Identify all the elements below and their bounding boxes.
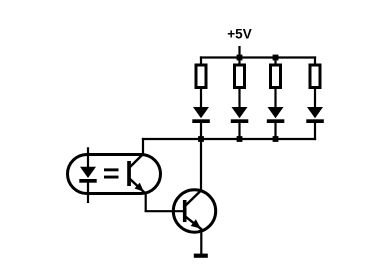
wire R2-to-D2 [238,88,240,109]
ground [194,254,208,258]
wire D2-to-bus [238,122,240,140]
optocoupler LED anode lead [87,147,89,167]
transistor Q1 base bar [183,200,187,222]
optocoupler light coupling symbol = [104,168,119,178]
resistor R4 [310,65,320,88]
optocoupler phototransistor collector [130,154,144,168]
junction dot bus-branch1 [198,136,204,142]
diode D1 [192,107,210,123]
wire Q1 collector (bus to transistor) [200,140,202,192]
wire branch4 rail-to-R4 [314,56,316,65]
wire branch2 rail-to-R2 [238,56,240,65]
diode D2 [231,107,249,123]
wire Q1 emitter-to-ground [200,229,202,255]
wire D3-to-bus [274,122,276,140]
transistor Q1 body [173,190,215,232]
resistor R2 [235,65,245,88]
optocoupler U1 package [68,155,161,194]
resistor R3 [271,65,281,88]
optocoupler phototransistor emitter [130,179,146,194]
diode D3 [267,107,285,123]
svg-text:+5V: +5V [227,26,251,41]
wire Q1 base lead [145,210,185,212]
transistor Q1 collector diagonal [185,190,202,207]
wire branch3 rail-to-R3 [274,56,276,65]
wire bottom bus [142,138,316,140]
wire bus-to-optocoupler collector [142,138,144,154]
wire R3-to-D3 [274,88,276,109]
transistor Q1 emitter diagonal [185,216,202,230]
diode D4 [306,107,324,123]
wire D1-to-bus [200,122,202,140]
optocoupler LED D5 [79,167,96,183]
resistor R1 [196,65,206,88]
wire branch1 rail-to-R1 [200,56,202,65]
wire +5V stub [238,46,240,58]
wire R4-to-D4 [314,88,316,109]
optocoupler LED cathode lead [87,182,89,203]
optocoupler phototransistor base bar [127,161,131,186]
junction dot bus-branch3 [273,136,279,142]
wire top rail [200,56,316,58]
wire D4-to-bus [314,122,316,140]
wire optocoupler emitter drop [145,193,147,212]
junction dot bus-branch2 [237,136,243,142]
wire R1-to-D1 [200,88,202,109]
junction dot rail-branch3 [273,55,279,61]
junction dot rail-branch2 [237,55,243,61]
